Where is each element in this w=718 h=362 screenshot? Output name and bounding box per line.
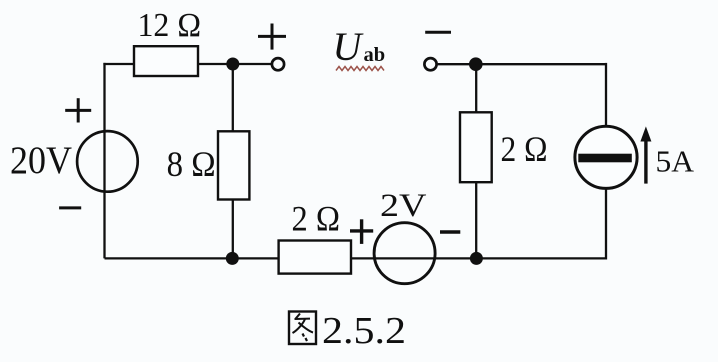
- svg-text:8 Ω: 8 Ω: [167, 144, 216, 184]
- svg-text:5A: 5A: [656, 144, 695, 178]
- svg-text:12 Ω: 12 Ω: [138, 7, 202, 44]
- svg-text:2 Ω: 2 Ω: [292, 199, 341, 239]
- terminal b open circle: [424, 58, 436, 70]
- wire: far right vertical lower: [605, 189, 607, 260]
- wire: bottom middle through 2V source to right corner: [351, 257, 606, 259]
- plus sign of 2V: [350, 219, 373, 244]
- svg-text:U: U: [333, 24, 365, 69]
- plus sign of 20V: [65, 98, 91, 122]
- terminal a open circle: [272, 58, 284, 70]
- red squiggly underline: [336, 67, 384, 71]
- node: bottom junction right: [470, 252, 483, 265]
- svg-text:ab: ab: [364, 44, 386, 66]
- wire: from 12ohm to terminal a: [198, 63, 271, 65]
- resistor 8ohm box: [218, 131, 249, 199]
- resistor 2ohm bottom box: [279, 241, 351, 274]
- svg-text:2 Ω: 2 Ω: [501, 129, 548, 169]
- minus sign of 2V: [440, 230, 460, 233]
- wire: 8ohm branch vertical upper: [232, 64, 234, 131]
- svg-text:2.5.2: 2.5.2: [322, 310, 406, 352]
- wire: right 2ohm branch lower: [475, 182, 477, 258]
- node: top junction of 8ohm branch: [226, 58, 239, 71]
- voltage source 2V circle: [374, 223, 435, 284]
- voltage source 20V circle: [77, 131, 138, 192]
- wire: right 2ohm branch upper: [475, 64, 477, 112]
- node: bottom junction of 8ohm branch: [226, 252, 239, 265]
- current source bar: [578, 154, 632, 163]
- wire: left vertical through 20V source: [103, 63, 105, 259]
- resistor R 12ohm box: [134, 46, 198, 76]
- node: top junction of right 2ohm branch: [469, 57, 483, 71]
- resistor 2ohm right box: [460, 112, 492, 182]
- wire: far right vertical upper: [605, 63, 607, 126]
- current source 5A circle: [575, 126, 637, 188]
- wire: 8ohm branch vertical lower: [232, 200, 234, 259]
- caption: tu (CJK box glyph drawn manually): [289, 312, 316, 345]
- minus sign of 20V: [59, 206, 81, 209]
- svg-text:20V: 20V: [10, 139, 72, 182]
- wire: top-left horizontal from left corner to 12ohm resistor: [103, 63, 135, 65]
- svg-text:2V: 2V: [380, 188, 427, 224]
- minus sign at terminal b: [425, 31, 451, 34]
- arrow of 5A current source: [644, 138, 647, 184]
- plus sign at terminal a: [258, 24, 286, 50]
- wire: from terminal b to top right corner: [438, 63, 606, 65]
- wire: bottom left horizontal: [105, 257, 279, 259]
